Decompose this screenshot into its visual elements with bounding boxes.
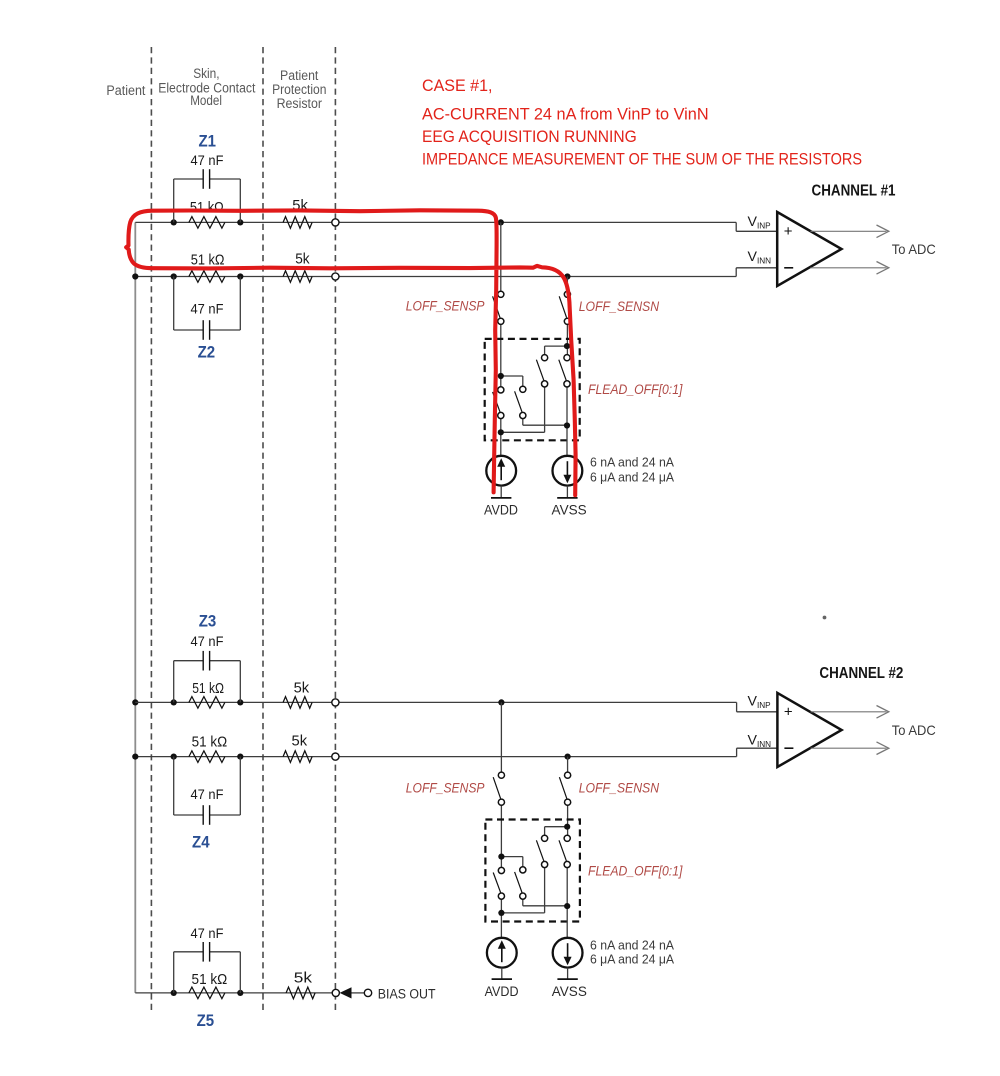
svg-text:47 nF: 47 nF: [191, 633, 224, 649]
svg-text:Patient: Patient: [106, 83, 145, 98]
svg-text:LOFF_SENSP: LOFF_SENSP: [406, 298, 485, 314]
svg-text:CASE #1,: CASE #1,: [422, 77, 493, 95]
svg-text:51 kΩ: 51 kΩ: [192, 735, 228, 751]
svg-text:Z5: Z5: [197, 1011, 215, 1030]
svg-text:FLEAD_OFF[0:1]: FLEAD_OFF[0:1]: [588, 381, 683, 397]
svg-text:BIAS OUT: BIAS OUT: [378, 987, 436, 1002]
svg-text:47 nF: 47 nF: [191, 925, 224, 941]
svg-text:AC-CURRENT 24 nA from VinP to: AC-CURRENT 24 nA from VinP to VinN: [422, 105, 709, 123]
svg-text:LOFF_SENSN: LOFF_SENSN: [579, 298, 660, 314]
svg-text:CHANNEL #2: CHANNEL #2: [819, 665, 903, 682]
svg-text:AVDD: AVDD: [484, 502, 518, 517]
svg-text:IMPEDANCE MEASUREMENT OF THE S: IMPEDANCE MEASUREMENT OF THE SUM OF THE …: [422, 150, 862, 168]
svg-text:Model: Model: [190, 93, 222, 108]
svg-text:To ADC: To ADC: [892, 241, 936, 257]
svg-text:6 μA and 24 μA: 6 μA and 24 μA: [590, 470, 674, 485]
svg-text:Z1: Z1: [198, 131, 216, 150]
svg-text:FLEAD_OFF[0:1]: FLEAD_OFF[0:1]: [588, 862, 683, 878]
svg-text:Z3: Z3: [199, 612, 217, 631]
svg-text:To ADC: To ADC: [892, 722, 936, 738]
svg-text:6 μA and 24 μA: 6 μA and 24 μA: [590, 952, 674, 967]
svg-text:CHANNEL #1: CHANNEL #1: [812, 182, 896, 199]
svg-text:Protection: Protection: [272, 82, 326, 97]
svg-text:EEG ACQUISITION RUNNING: EEG ACQUISITION RUNNING: [422, 128, 637, 146]
svg-text:51 kΩ: 51 kΩ: [191, 252, 225, 268]
svg-text:51 kΩ: 51 kΩ: [192, 681, 224, 697]
svg-text:5k: 5k: [294, 681, 310, 697]
svg-text:LOFF_SENSP: LOFF_SENSP: [406, 779, 485, 795]
svg-text:Resistor: Resistor: [277, 96, 323, 111]
svg-text:AVSS: AVSS: [552, 984, 587, 999]
svg-text:47 nF: 47 nF: [191, 300, 224, 316]
svg-text:47 nF: 47 nF: [191, 152, 224, 168]
svg-text:51 kΩ: 51 kΩ: [192, 972, 228, 988]
svg-text:AVSS: AVSS: [552, 502, 587, 517]
svg-text:Patient: Patient: [280, 68, 319, 83]
svg-text:LOFF_SENSN: LOFF_SENSN: [579, 779, 660, 795]
svg-text:+: +: [784, 704, 793, 721]
svg-text:6 nA and 24 nA: 6 nA and 24 nA: [590, 937, 674, 952]
svg-text:Z2: Z2: [198, 342, 216, 361]
svg-text:47 nF: 47 nF: [191, 786, 224, 802]
svg-text:6 nA and 24 nA: 6 nA and 24 nA: [590, 455, 674, 470]
svg-text:Skin,: Skin,: [193, 66, 219, 81]
svg-text:AVDD: AVDD: [485, 984, 519, 999]
svg-text:5k: 5k: [294, 971, 313, 987]
svg-text:5k: 5k: [292, 734, 308, 750]
svg-text:5k: 5k: [295, 252, 310, 268]
svg-text:51 kΩ: 51 kΩ: [190, 200, 224, 216]
svg-text:+: +: [784, 223, 793, 240]
svg-text:Z4: Z4: [192, 833, 210, 852]
